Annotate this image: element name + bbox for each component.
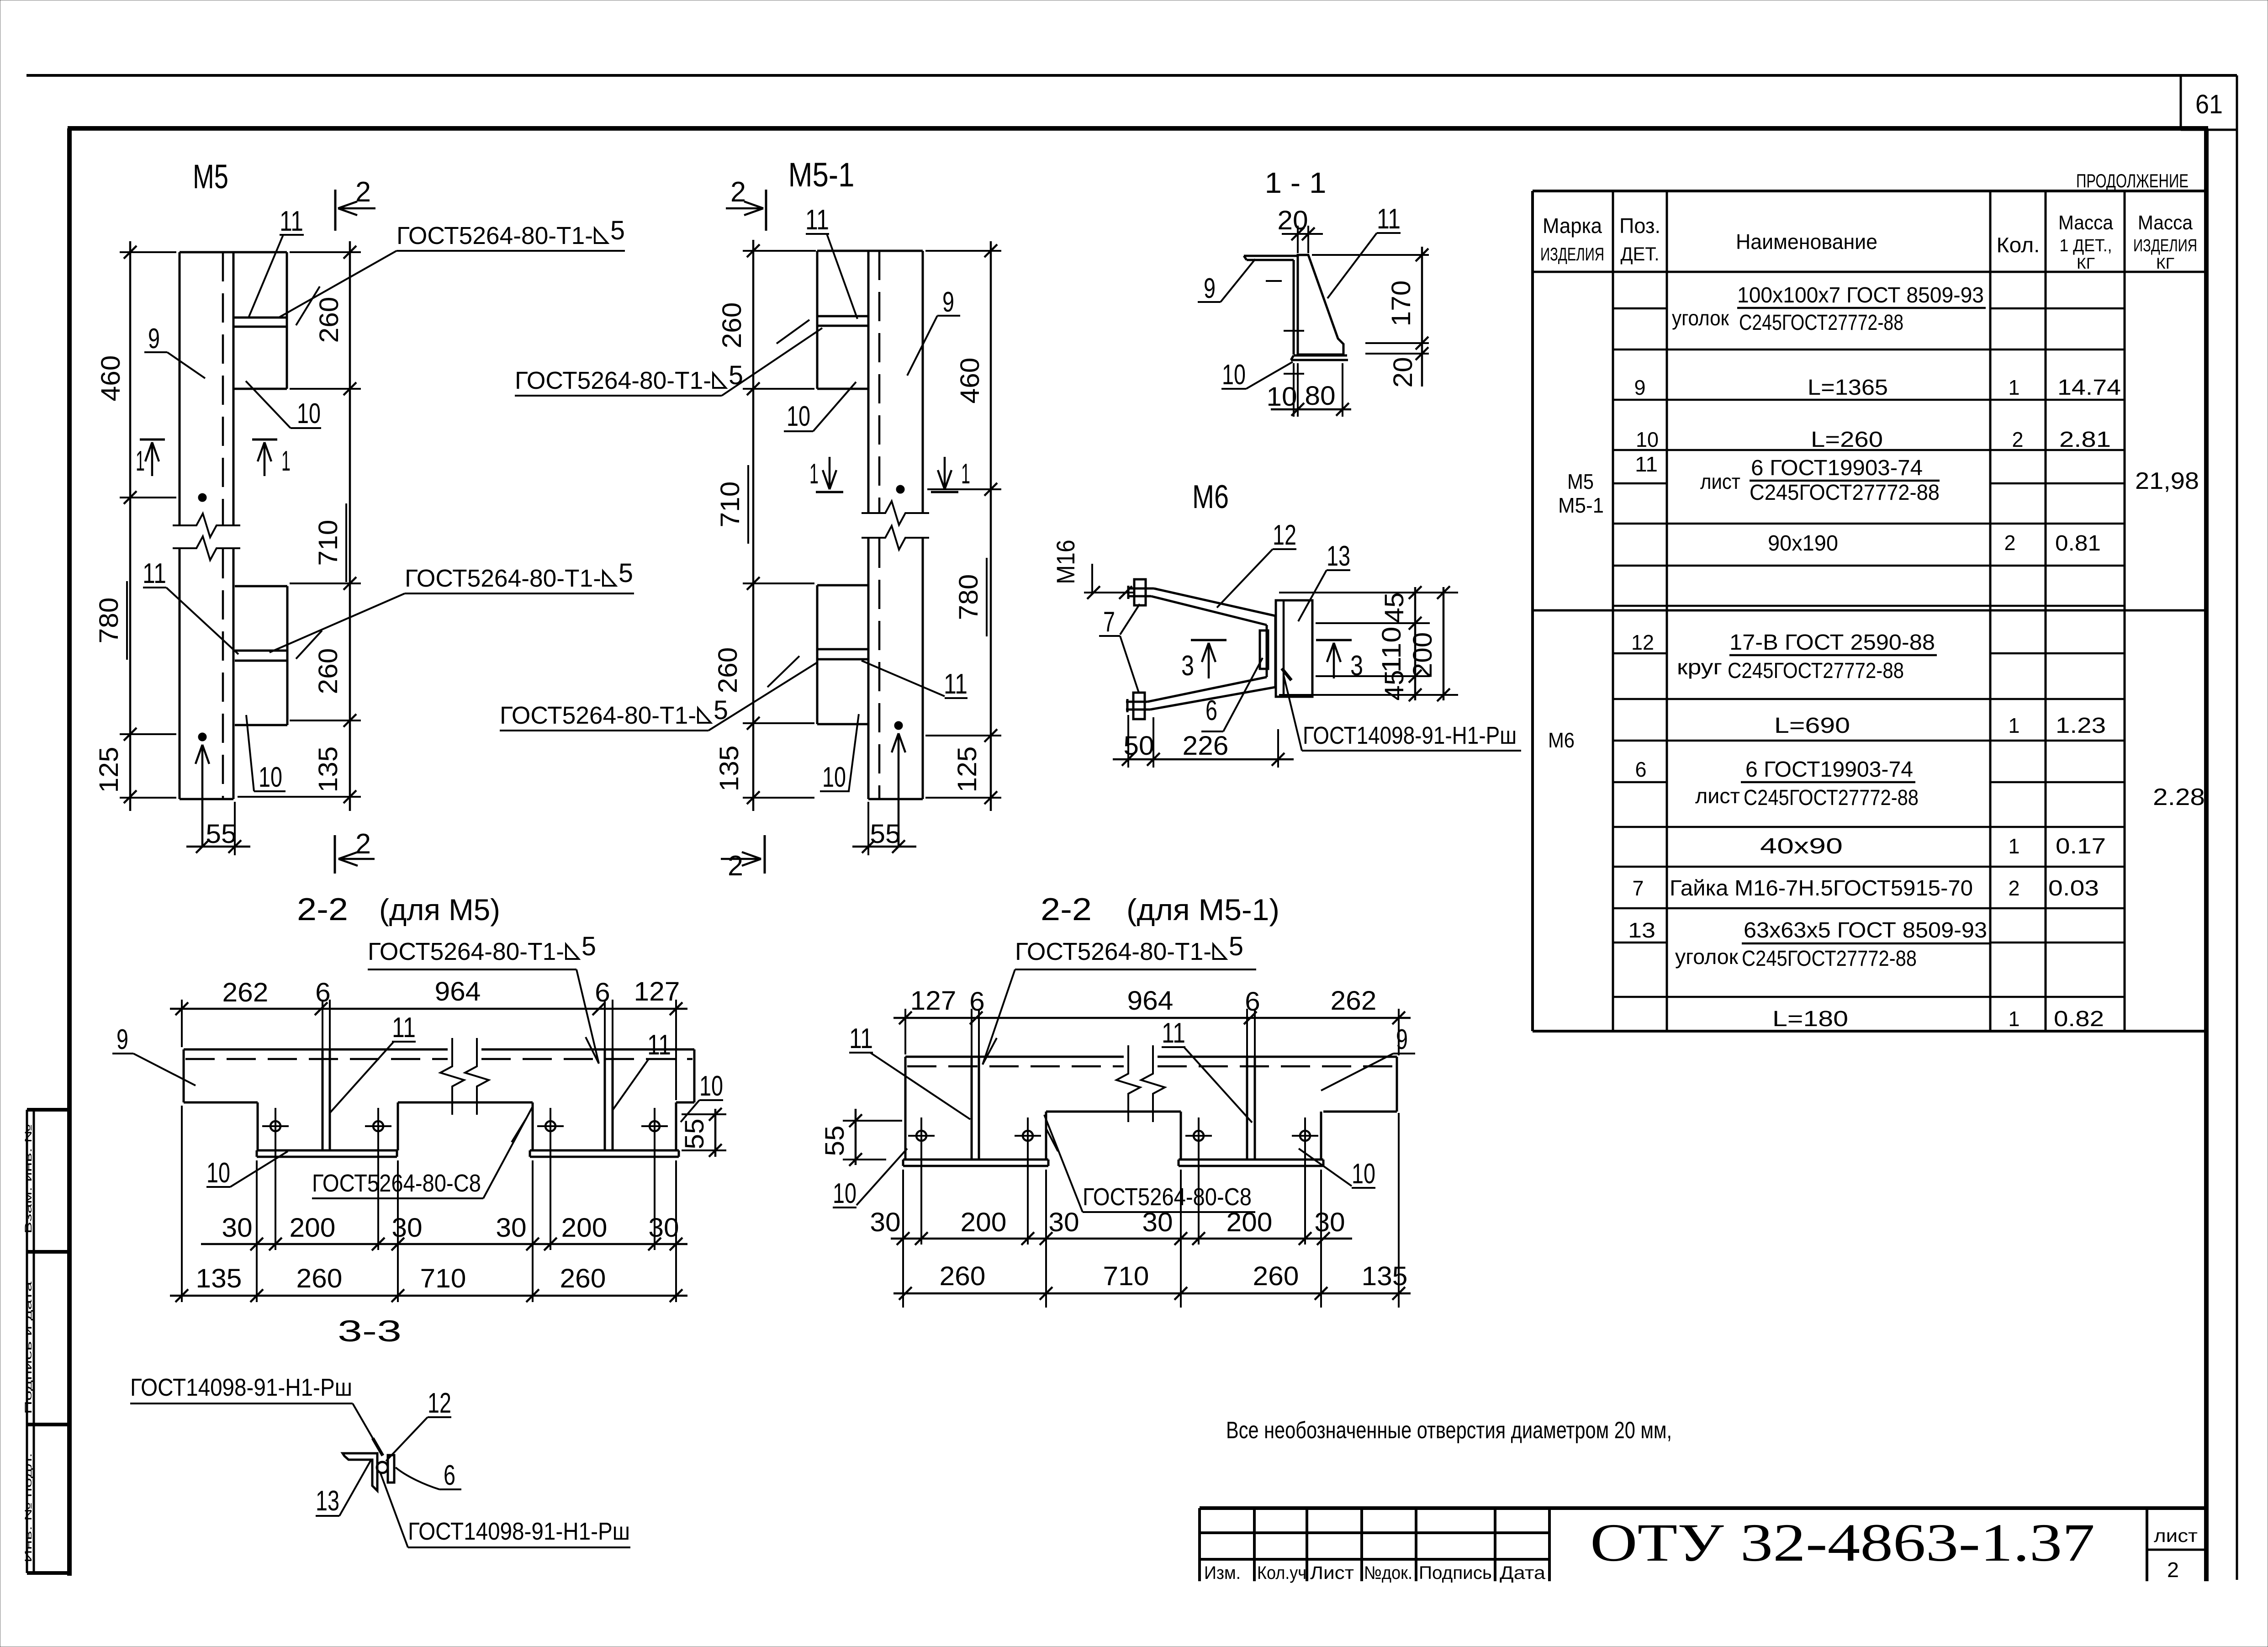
M5-1 left dim extension lines bbox=[743, 250, 816, 252]
3-3 angle 13 bbox=[343, 1453, 377, 1491]
svg-text:L=180: L=180 bbox=[1772, 1007, 1848, 1031]
svg-text:710: 710 bbox=[715, 482, 745, 528]
2-2M51 left rib 11 bbox=[971, 1057, 973, 1160]
svg-text:11: 11 bbox=[849, 1023, 873, 1054]
svg-text:ОТУ 32-4863-1.37: ОТУ 32-4863-1.37 bbox=[1590, 1513, 2095, 1573]
2-2M51 top dim line bbox=[893, 1017, 1411, 1019]
svg-text:63х63х5 ГОСТ 8509-93: 63х63х5 ГОСТ 8509-93 bbox=[1744, 918, 1987, 943]
svg-text:1: 1 bbox=[2009, 1007, 2020, 1031]
svg-text:ИЗДЕЛИЯ: ИЗДЕЛИЯ bbox=[1540, 244, 1604, 265]
2-2M5 bolt hole right-2 bbox=[650, 1121, 660, 1131]
svg-text:L=690: L=690 bbox=[1774, 714, 1850, 738]
svg-text:7: 7 bbox=[1103, 606, 1115, 638]
M5 left dim line bbox=[129, 241, 132, 811]
svg-text:10: 10 bbox=[1352, 1158, 1375, 1190]
svg-text:ГОСТ5264-80-Т1-: ГОСТ5264-80-Т1- bbox=[397, 222, 593, 249]
2-2M51 bolt hole left-1 bbox=[916, 1131, 926, 1141]
M5-1 left dim line bbox=[752, 240, 755, 811]
svg-text:0.81: 0.81 bbox=[2055, 531, 2101, 556]
svg-text:ГОСТ14098-91-Н1-Рш: ГОСТ14098-91-Н1-Рш bbox=[1303, 722, 1517, 749]
2-2M5 beam dashed line bbox=[185, 1058, 448, 1060]
svg-text:6: 6 bbox=[1635, 757, 1647, 781]
svg-text:№док.: №док. bbox=[1364, 1563, 1412, 1583]
M5 upper plate 11 edge lines bbox=[233, 317, 287, 319]
svg-text:2: 2 bbox=[2012, 428, 2024, 451]
svg-text:30: 30 bbox=[1048, 1207, 1079, 1237]
svg-text:9: 9 bbox=[1396, 1024, 1408, 1055]
svg-text:2: 2 bbox=[355, 176, 371, 208]
M6 plate 6 bbox=[1260, 630, 1268, 669]
svg-text:М5-1: М5-1 bbox=[1558, 493, 1604, 517]
svg-text:0.82: 0.82 bbox=[2054, 1007, 2104, 1031]
svg-text:11: 11 bbox=[392, 1012, 416, 1043]
svg-text:135: 135 bbox=[196, 1264, 242, 1293]
svg-text:6 ГОСТ19903-74: 6 ГОСТ19903-74 bbox=[1751, 456, 1923, 480]
svg-text:ГОСТ5264-80-С8: ГОСТ5264-80-С8 bbox=[312, 1170, 481, 1197]
svg-text:780: 780 bbox=[94, 598, 124, 644]
svg-text:30: 30 bbox=[648, 1213, 679, 1243]
svg-text:30: 30 bbox=[222, 1213, 252, 1243]
2-2M51 rib extensions upper bbox=[971, 1009, 973, 1057]
svg-text:2.81: 2.81 bbox=[2059, 428, 2111, 452]
svg-text:21,98: 21,98 bbox=[2135, 468, 2199, 494]
svg-text:10: 10 bbox=[1222, 359, 1246, 391]
drawing frame top bbox=[68, 126, 2208, 131]
svg-text:710: 710 bbox=[313, 520, 343, 566]
2-2M5 bolt extension lines bbox=[275, 1139, 276, 1250]
1-1 angle 9 horizontal leg bbox=[1244, 255, 1298, 257]
svg-text:200: 200 bbox=[290, 1213, 336, 1243]
svg-text:55: 55 bbox=[820, 1125, 850, 1156]
svg-text:11: 11 bbox=[143, 558, 166, 589]
2-2M51 bolt hole right-1 bbox=[1194, 1131, 1204, 1141]
svg-text:ГОСТ5264-80-Т1-: ГОСТ5264-80-Т1- bbox=[368, 938, 564, 965]
svg-text:9: 9 bbox=[1204, 273, 1216, 304]
svg-text:(для М5-1): (для М5-1) bbox=[1126, 893, 1279, 927]
svg-text:С245ГОСТ27772-88: С245ГОСТ27772-88 bbox=[1750, 481, 1940, 505]
svg-text:Поз.: Поз. bbox=[1619, 214, 1660, 238]
M5-1 dim 55 extension bbox=[867, 802, 869, 855]
svg-text:М5-1: М5-1 bbox=[788, 156, 855, 194]
sheet top edge line bbox=[26, 74, 2237, 77]
svg-text:0.17: 0.17 bbox=[2056, 834, 2106, 858]
2-2M51 beam 9 outline bbox=[905, 1056, 1124, 1058]
svg-text:11: 11 bbox=[1162, 1017, 1185, 1049]
1-1 weld tick marks bbox=[1266, 280, 1282, 282]
svg-text:200: 200 bbox=[961, 1207, 1007, 1237]
svg-text:11: 11 bbox=[944, 668, 967, 700]
M6 nut 7 upper bbox=[1134, 579, 1146, 605]
1-1 dim 20 top bbox=[1282, 233, 1323, 235]
M6 bottom dim extensions bbox=[1127, 715, 1129, 768]
svg-text:710: 710 bbox=[420, 1264, 466, 1293]
svg-text:ГОСТ5264-80-Т1-: ГОСТ5264-80-Т1- bbox=[515, 367, 711, 394]
svg-text:С245ГОСТ27772-88: С245ГОСТ27772-88 bbox=[1744, 786, 1919, 810]
svg-text:260: 260 bbox=[717, 302, 747, 349]
svg-text:ГОСТ5264-80-Т1-: ГОСТ5264-80-Т1- bbox=[1015, 938, 1211, 965]
svg-text:Кол.: Кол. bbox=[1997, 233, 2040, 257]
M5-1 right dim ticks bbox=[984, 244, 997, 257]
M5-1 hole axis arrow bbox=[898, 733, 900, 847]
M6 rod 12 lower bbox=[1126, 701, 1147, 703]
left margin box column bbox=[26, 1110, 28, 1573]
svg-text:6: 6 bbox=[315, 978, 331, 1007]
svg-text:лист: лист bbox=[1695, 784, 1740, 808]
svg-text:6: 6 bbox=[595, 978, 610, 1007]
svg-text:13: 13 bbox=[1628, 918, 1655, 942]
svg-text:7: 7 bbox=[1633, 876, 1644, 900]
svg-text:лист: лист bbox=[1700, 470, 1740, 493]
svg-text:200: 200 bbox=[561, 1213, 608, 1243]
svg-text:13: 13 bbox=[1327, 540, 1350, 572]
M6 section mark 3 left bbox=[1191, 639, 1227, 641]
2-2M5 dim 55 bbox=[714, 1109, 717, 1157]
3-3 plate 6 bbox=[388, 1455, 394, 1483]
svg-text:Взам. инв. №: Взам. инв. № bbox=[23, 1124, 34, 1234]
title block top line bbox=[1200, 1506, 2206, 1510]
svg-text:135: 135 bbox=[1362, 1261, 1408, 1291]
M5-1 beam 9 top edge bbox=[817, 250, 923, 252]
M5-1 upper bracket plate 10 outline bbox=[816, 251, 819, 389]
page number box bbox=[2180, 75, 2182, 130]
svg-text:1: 1 bbox=[136, 445, 145, 477]
svg-text:ГОСТ5264-80-Т1-: ГОСТ5264-80-Т1- bbox=[405, 565, 601, 592]
svg-text:260: 260 bbox=[713, 647, 743, 694]
2-2M5 dim row2 line bbox=[170, 1295, 687, 1297]
svg-text:5: 5 bbox=[619, 558, 633, 588]
2-2M51 bracket extension lines bbox=[902, 1170, 904, 1308]
svg-text:260: 260 bbox=[314, 297, 344, 343]
svg-text:Наименование: Наименование bbox=[1736, 230, 1877, 254]
2-2M5 left bracket plate 10 bbox=[257, 1102, 259, 1150]
M5-1 beam 9 left edge bbox=[867, 251, 870, 513]
svg-text:М6: М6 bbox=[1192, 479, 1229, 515]
M5-1 beam 9 dashed axis bbox=[878, 251, 881, 512]
svg-text:127: 127 bbox=[634, 977, 680, 1006]
svg-text:125: 125 bbox=[952, 747, 982, 793]
svg-text:КГ: КГ bbox=[2077, 255, 2095, 272]
2-2M51 right rib 11 bbox=[1246, 1057, 1248, 1160]
svg-text:55: 55 bbox=[206, 819, 236, 849]
svg-text:262: 262 bbox=[1331, 986, 1377, 1016]
svg-text:10: 10 bbox=[297, 398, 321, 429]
svg-text:226: 226 bbox=[1183, 731, 1229, 761]
2-2M5 bolt hole left-1 bbox=[270, 1121, 280, 1131]
svg-text:260: 260 bbox=[313, 648, 343, 694]
M5 section mark 1 left bbox=[140, 439, 165, 441]
svg-text:260: 260 bbox=[1253, 1261, 1299, 1291]
table column lines bbox=[1612, 191, 1614, 1031]
M6 right dim extensions bbox=[1279, 592, 1458, 593]
svg-text:135: 135 bbox=[313, 747, 343, 793]
svg-text:30: 30 bbox=[1142, 1207, 1173, 1237]
table section divider M5/M6 bbox=[1533, 609, 2206, 612]
svg-text:уголок: уголок bbox=[1675, 945, 1739, 969]
svg-text:3: 3 bbox=[1181, 650, 1194, 682]
M5 left dim ticks bbox=[124, 246, 137, 259]
svg-text:10: 10 bbox=[787, 401, 810, 432]
svg-text:200: 200 bbox=[1408, 632, 1438, 678]
M5 beam 9 dashed axis bbox=[222, 252, 224, 524]
svg-text:Марка: Марка bbox=[1543, 214, 1602, 238]
svg-text:ГОСТ5264-80-Т1-: ГОСТ5264-80-Т1- bbox=[500, 702, 696, 729]
svg-text:2: 2 bbox=[728, 850, 743, 882]
svg-text:11: 11 bbox=[1635, 452, 1658, 476]
2-2M5 dim row1 line bbox=[201, 1243, 687, 1245]
svg-text:12: 12 bbox=[428, 1388, 451, 1419]
svg-text:ИЗДЕЛИЯ: ИЗДЕЛИЯ bbox=[2133, 236, 2197, 255]
svg-text:1: 1 bbox=[2009, 834, 2020, 858]
svg-text:лист: лист bbox=[2154, 1526, 2198, 1546]
svg-text:Инв. № подл.: Инв. № подл. bbox=[23, 1453, 34, 1562]
M5 left dim extension lines bbox=[120, 251, 176, 253]
svg-text:6 ГОСТ19903-74: 6 ГОСТ19903-74 bbox=[1745, 757, 1913, 782]
svg-text:1: 1 bbox=[2009, 714, 2020, 737]
svg-text:55: 55 bbox=[680, 1118, 709, 1149]
1-1 bottom dim extensions bbox=[1293, 363, 1295, 417]
3-3 rod 12 circle bbox=[377, 1462, 388, 1473]
M5 right dim line bbox=[349, 241, 351, 811]
M5 beam 9 right edge bbox=[233, 252, 235, 525]
M5 lower plate 11 edge lines bbox=[235, 650, 287, 652]
table header bottom line bbox=[1533, 271, 2206, 273]
svg-text:200: 200 bbox=[1227, 1207, 1273, 1237]
M6 dim 200 line bbox=[1443, 587, 1445, 700]
svg-text:11: 11 bbox=[805, 204, 829, 236]
svg-text:ГОСТ14098-91-Н1-Рш: ГОСТ14098-91-Н1-Рш bbox=[408, 1518, 630, 1545]
svg-text:127: 127 bbox=[910, 986, 957, 1016]
2-2M51 beam dashed line bbox=[907, 1065, 1124, 1068]
M5-1 section mark 2 bottom bbox=[764, 835, 766, 874]
M5-1 right dim extension lines bbox=[925, 250, 1001, 252]
svg-text:14.74: 14.74 bbox=[2057, 376, 2121, 400]
svg-text:0.03: 0.03 bbox=[2048, 876, 2099, 900]
M5 section mark 2 bottom bbox=[334, 835, 336, 874]
svg-text:10: 10 bbox=[259, 762, 282, 793]
2-2M51 bolt extension lines bbox=[920, 1148, 922, 1245]
svg-text:260: 260 bbox=[296, 1264, 343, 1293]
M5 section mark 2 top bbox=[334, 190, 337, 231]
svg-text:5: 5 bbox=[610, 216, 625, 245]
svg-text:90х190: 90х190 bbox=[1768, 531, 1838, 556]
M5 right dim extension lines bbox=[290, 388, 361, 390]
svg-text:460: 460 bbox=[955, 358, 985, 404]
svg-text:1: 1 bbox=[961, 458, 970, 490]
svg-text:10: 10 bbox=[1266, 382, 1297, 412]
svg-text:50: 50 bbox=[1123, 731, 1154, 761]
M5-1 beam 9 right edge bbox=[922, 251, 924, 513]
svg-text:Подпись и дата: Подпись и дата bbox=[23, 1281, 34, 1414]
svg-text:45: 45 bbox=[1380, 670, 1409, 700]
M5-1 beam 9 break lines bbox=[862, 501, 929, 525]
svg-text:М16: М16 bbox=[1051, 540, 1080, 584]
2-2M5 bolt hole right-1 bbox=[545, 1121, 555, 1131]
svg-text:Дата: Дата bbox=[1500, 1563, 1546, 1583]
M5-1 left dim ticks bbox=[747, 244, 760, 257]
M5 beam 9 break lines bbox=[173, 514, 240, 537]
svg-text:20: 20 bbox=[1277, 206, 1308, 235]
svg-text:964: 964 bbox=[435, 977, 481, 1006]
svg-text:М5: М5 bbox=[1567, 470, 1594, 493]
svg-text:5: 5 bbox=[582, 932, 596, 961]
svg-text:1: 1 bbox=[2009, 376, 2020, 399]
svg-text:Кол.уч: Кол.уч bbox=[1257, 1563, 1306, 1583]
2-2M5 right rib 11 bbox=[604, 1049, 606, 1150]
2-2M5 top dim line bbox=[170, 1008, 687, 1010]
svg-text:9: 9 bbox=[148, 323, 160, 355]
svg-text:11: 11 bbox=[1377, 203, 1401, 235]
svg-text:260: 260 bbox=[560, 1264, 606, 1293]
svg-text:460: 460 bbox=[96, 355, 126, 402]
svg-text:Масса: Масса bbox=[2138, 212, 2193, 234]
svg-text:1 ДЕТ.,: 1 ДЕТ., bbox=[2060, 236, 2112, 255]
M5 hole axis arrow bbox=[201, 745, 204, 847]
svg-text:135: 135 bbox=[714, 746, 744, 792]
svg-text:L=260: L=260 bbox=[1811, 428, 1883, 452]
M5-1 right dim line bbox=[990, 241, 992, 811]
svg-text:(для М5): (для М5) bbox=[379, 893, 500, 927]
M5-1 upper plate 11 edge lines bbox=[817, 315, 868, 318]
1-1 angle 9 vertical leg bbox=[1293, 260, 1295, 355]
svg-text:2-2: 2-2 bbox=[1041, 891, 1092, 927]
svg-text:964: 964 bbox=[1127, 986, 1174, 1016]
svg-text:С245ГОСТ27772-88: С245ГОСТ27772-88 bbox=[1739, 311, 1903, 335]
svg-text:Гайка М16-7Н.5ГОСТ5915-70: Гайка М16-7Н.5ГОСТ5915-70 bbox=[1670, 876, 1973, 900]
svg-text:710: 710 bbox=[1103, 1261, 1149, 1291]
svg-text:30: 30 bbox=[391, 1213, 422, 1243]
table outer top bbox=[1533, 190, 2206, 192]
svg-text:40х90: 40х90 bbox=[1760, 834, 1843, 858]
table row lines bbox=[1613, 349, 2125, 351]
M5 hole lower bbox=[198, 733, 206, 741]
1-1 right dim line bbox=[1421, 247, 1423, 387]
2-2M5 rib extensions upper bbox=[322, 1000, 323, 1049]
M5-1 lower plate 11 edge lines bbox=[817, 648, 868, 651]
M5-1 hole upper bbox=[896, 485, 904, 493]
svg-text:11: 11 bbox=[647, 1029, 671, 1061]
M5 dim 55 line bbox=[186, 846, 250, 848]
svg-text:Изм.: Изм. bbox=[1204, 1563, 1241, 1583]
drawing frame right bbox=[2204, 128, 2209, 1581]
svg-text:1: 1 bbox=[281, 445, 291, 477]
svg-text:М6: М6 bbox=[1548, 728, 1575, 752]
svg-text:С245ГОСТ27772-88: С245ГОСТ27772-88 bbox=[1742, 947, 1917, 971]
svg-text:12: 12 bbox=[1273, 519, 1296, 551]
2-2M51 top dim extensions bbox=[904, 1009, 906, 1054]
svg-text:11: 11 bbox=[280, 206, 303, 237]
2-2M51 bolt hole left-2 bbox=[1023, 1131, 1033, 1141]
M6 bottom dim line bbox=[1113, 758, 1294, 761]
title block list box bbox=[2146, 1510, 2148, 1581]
2-2M5 right bracket plate 10 bbox=[532, 1102, 534, 1150]
svg-text:17-В ГОСТ 2590-88: 17-В ГОСТ 2590-88 bbox=[1729, 630, 1935, 655]
M6 angle plate 13 bbox=[1276, 600, 1312, 697]
svg-text:45: 45 bbox=[1380, 592, 1409, 623]
M5 beam 9 bottom edge bbox=[180, 798, 233, 800]
svg-text:5: 5 bbox=[1229, 932, 1243, 961]
1-1 dim 20 top extensions bbox=[1297, 226, 1299, 253]
svg-text:КГ: КГ bbox=[2156, 255, 2174, 272]
M5 beam 9 left edge bbox=[179, 252, 181, 525]
M5-1 hole lower bbox=[894, 721, 903, 730]
1-1 bottom dim line bbox=[1271, 408, 1351, 411]
svg-text:170: 170 bbox=[1386, 281, 1416, 327]
M5 upper bracket plate 10 outline bbox=[286, 252, 288, 389]
2-2M51 bolt hole right-2 bbox=[1300, 1131, 1310, 1141]
svg-text:6: 6 bbox=[444, 1460, 455, 1491]
M5 dim 55 extension bbox=[234, 802, 236, 855]
svg-text:6: 6 bbox=[969, 987, 985, 1017]
2-2M51 dim row1 line bbox=[891, 1238, 1352, 1240]
M5-1 dim 55 line bbox=[852, 846, 916, 848]
2-2M51 left bracket plate 10 bbox=[904, 1112, 907, 1160]
svg-text:30: 30 bbox=[870, 1207, 900, 1237]
2-2M5 beam 9 outline bbox=[184, 1049, 448, 1051]
2-2M5 top dim extensions bbox=[181, 1000, 183, 1047]
svg-text:2: 2 bbox=[2004, 531, 2016, 555]
2-2M51 right bracket plate 10 bbox=[1180, 1112, 1182, 1160]
svg-text:10: 10 bbox=[1636, 428, 1659, 451]
2-2M51 dim 55 bbox=[855, 1109, 857, 1165]
2-2M5 beam break bbox=[440, 1038, 464, 1115]
M5 hole upper bbox=[198, 493, 206, 502]
table outer bottom bbox=[1533, 1030, 2206, 1033]
svg-text:110: 110 bbox=[1377, 627, 1406, 673]
left margin box separators bbox=[27, 1108, 69, 1112]
svg-text:Масса: Масса bbox=[2058, 212, 2113, 234]
2-2M51 beam break bbox=[1116, 1045, 1140, 1122]
M5 beam 9 top edge bbox=[180, 251, 287, 254]
M5-1 lower bracket plate 10 outline bbox=[817, 584, 868, 587]
svg-text:2: 2 bbox=[730, 176, 746, 208]
svg-text:30: 30 bbox=[496, 1213, 526, 1243]
svg-text:9: 9 bbox=[942, 286, 954, 318]
svg-text:Все необозначенные отверстия д: Все необозначенные отверстия диаметром 2… bbox=[1226, 1417, 1672, 1444]
1-1 plate 10 bottom plate bbox=[1294, 355, 1347, 357]
svg-text:ГОСТ5264-80-С8: ГОСТ5264-80-С8 bbox=[1083, 1183, 1252, 1211]
svg-text:М5: М5 bbox=[193, 158, 228, 196]
M6 nut 7 lower bbox=[1133, 693, 1145, 719]
svg-text:30: 30 bbox=[1314, 1207, 1345, 1237]
1-1 gusset plate 11 bbox=[1298, 255, 1343, 355]
svg-text:Подпись: Подпись bbox=[1419, 1563, 1492, 1583]
M5-1 beam 9 bottom edge bbox=[868, 798, 923, 800]
svg-text:12: 12 bbox=[1631, 630, 1654, 654]
table fraction-level partial lines bbox=[1613, 307, 1667, 310]
title block grid horizontals bbox=[1200, 1531, 1549, 1534]
svg-text:2: 2 bbox=[355, 828, 371, 860]
svg-text:1 - 1: 1 - 1 bbox=[1265, 166, 1327, 199]
svg-text:13: 13 bbox=[316, 1485, 339, 1517]
svg-text:10: 10 bbox=[699, 1070, 723, 1102]
svg-text:круг: круг bbox=[1677, 655, 1722, 679]
svg-text:ГОСТ14098-91-Н1-Рш: ГОСТ14098-91-Н1-Рш bbox=[130, 1374, 352, 1401]
M6 rod 12 right bend bbox=[1274, 616, 1277, 687]
table outer left bbox=[1531, 191, 1534, 1031]
svg-text:9: 9 bbox=[1634, 376, 1646, 399]
svg-text:100х100х7 ГОСТ 8509-93: 100х100х7 ГОСТ 8509-93 bbox=[1737, 283, 1984, 307]
svg-text:10: 10 bbox=[206, 1157, 230, 1189]
M5 lower bracket plate 10 outline bbox=[235, 585, 287, 588]
svg-text:6: 6 bbox=[1245, 987, 1260, 1017]
svg-text:3-3: 3-3 bbox=[338, 1314, 402, 1348]
title block grid verticals bbox=[1198, 1508, 1201, 1581]
svg-text:уголок: уголок bbox=[1672, 306, 1729, 330]
M5 section mark 1 right bbox=[252, 439, 277, 441]
M5 right dim ticks bbox=[344, 246, 356, 259]
sheet outer right border bbox=[2236, 75, 2238, 1580]
svg-text:262: 262 bbox=[222, 978, 269, 1007]
